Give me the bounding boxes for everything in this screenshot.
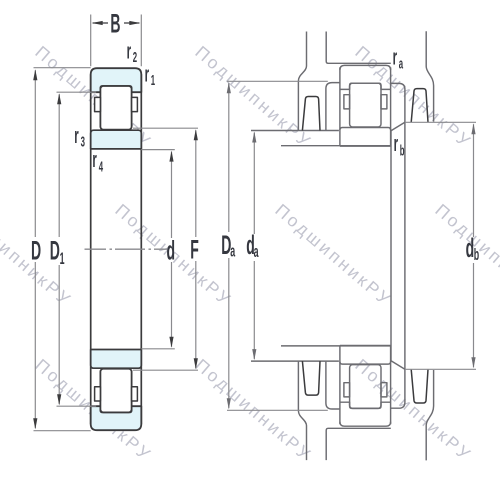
outer ring (bottom section)	[91, 406, 142, 430]
svg-text:3: 3	[81, 133, 86, 151]
svg-text:a: a	[399, 55, 404, 73]
svg-text:4: 4	[99, 158, 104, 176]
svg-text:r: r	[74, 123, 79, 148]
dimension d extension lines	[141, 150, 175, 349]
shaft shoulder surface / da level (top)	[251, 130, 339, 132]
dimension db line	[473, 124, 475, 367]
dimension F line	[195, 130, 197, 368]
dimension d line	[171, 152, 173, 347]
roller (right view, top)	[350, 83, 381, 127]
housing wall outer line (left, bottom)	[298, 362, 306, 461]
svg-text:b: b	[474, 245, 479, 264]
svg-text:r: r	[394, 131, 399, 156]
housing wall inner line (left, bottom)	[326, 428, 391, 460]
inner ring (right view, bottom)	[340, 346, 391, 365]
svg-text:d: d	[466, 233, 475, 263]
svg-text:1: 1	[60, 249, 65, 268]
svg-text:a: a	[230, 241, 235, 260]
svg-text:d: d	[167, 236, 176, 266]
cage bars (bottom section)	[95, 387, 101, 401]
dimension B extension lines	[91, 15, 142, 67]
svg-text:1: 1	[151, 71, 156, 89]
inner ring (top section)	[91, 130, 142, 149]
dimension D1 line	[58, 94, 60, 404]
housing wall (right, bottom)	[426, 370, 433, 460]
shaft chamfer cone (right, bottom)	[391, 361, 405, 370]
shaft chamfer cone (right, top)	[391, 122, 405, 131]
roller (right view, bottom)	[350, 365, 381, 409]
dimension Da line	[228, 83, 230, 408]
bearing side faces (right view, bottom)	[340, 346, 391, 425]
roller (bottom section)	[100, 369, 131, 413]
outer ring outline (right view, bottom)	[340, 402, 391, 426]
svg-text:r: r	[92, 147, 97, 172]
svg-text:r: r	[127, 38, 132, 63]
inner ring (right view, top)	[340, 128, 391, 147]
shoulder block (left, top)	[302, 97, 320, 131]
dimension B line	[93, 22, 140, 24]
shaft seat surface (bottom)	[281, 345, 391, 347]
dimension da line	[253, 133, 255, 360]
left view: bearing side face lines	[91, 74, 142, 424]
dimension D line	[34, 70, 36, 428]
dimension Da extension lines	[227, 81, 328, 410]
svg-text:B: B	[110, 9, 120, 39]
roller (top section)	[100, 86, 131, 130]
svg-text:D: D	[50, 236, 60, 266]
svg-text:D: D	[31, 236, 41, 266]
shoulder block (right, bottom)	[411, 369, 428, 403]
dimension D extension lines	[34, 68, 91, 431]
arrowheads left drawing	[33, 21, 198, 429]
outer ring outline (right view, top)	[340, 65, 391, 89]
cage bars (right view, top)	[344, 95, 350, 109]
centerline axis	[85, 248, 168, 250]
cage bars (right view, bottom)	[344, 383, 350, 397]
housing wall (right, top)	[426, 31, 433, 121]
inner ring (bottom section)	[91, 350, 142, 369]
dimension db extension lines	[405, 122, 476, 369]
abutment spacer (right, top)	[391, 83, 405, 122]
bearing side faces (right view, top)	[340, 67, 391, 146]
svg-text:r: r	[393, 44, 398, 69]
svg-text:b: b	[400, 142, 405, 160]
svg-text:a: a	[254, 242, 259, 261]
svg-text:2: 2	[133, 48, 138, 66]
dimension D1 extension lines	[57, 92, 97, 406]
abutment spacer (left, bottom)	[326, 362, 340, 409]
housing wall inner line (left, top)	[326, 32, 391, 64]
svg-text:r: r	[145, 61, 150, 86]
abutment spacer (left, top)	[326, 83, 340, 130]
shaft shoulder surface / da level (bottom)	[251, 360, 339, 362]
abutment spacer (right, bottom)	[391, 369, 405, 408]
dimension F extension lines	[133, 128, 198, 370]
shoulder block (left, bottom)	[302, 361, 320, 395]
housing wall outer line (left, top)	[298, 32, 306, 131]
svg-text:F: F	[190, 235, 199, 265]
shaft step face lines	[391, 122, 405, 369]
shaft seat surface (top)	[281, 145, 391, 147]
outer ring (top section)	[91, 68, 142, 92]
shoulder block (right, top)	[411, 89, 428, 123]
cage bars (top section)	[95, 97, 101, 111]
arrowheads right drawing	[227, 82, 476, 409]
